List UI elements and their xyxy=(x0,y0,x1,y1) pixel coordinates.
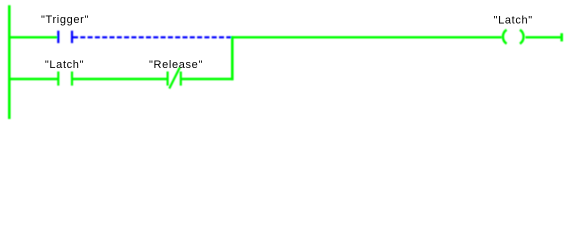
wire: dashed blue (no power flow) from Trigger to branch junction xyxy=(73,36,231,38)
contact "Release" (NC contact, green) xyxy=(168,68,181,89)
left power rail xyxy=(8,5,11,119)
contact "Latch" (NO contact, branch, green) xyxy=(58,72,72,86)
svg-text:"Trigger": "Trigger" xyxy=(41,14,89,26)
wire: junction to coil Latch xyxy=(231,36,502,38)
coil "Latch" (output, green) xyxy=(503,30,524,44)
svg-text:"Latch": "Latch" xyxy=(45,59,84,71)
contact Q "Trigger" (NO contact, state FALSE, blue) xyxy=(58,31,72,43)
wire: rail to branch contact Latch (rung 2 / parallel branch) xyxy=(8,78,58,80)
wire: rail to contact Trigger (rung 1) xyxy=(8,36,58,38)
svg-text:"Release": "Release" xyxy=(149,59,203,71)
junction: branch merge vertical wire xyxy=(231,36,234,80)
svg-text:"Latch": "Latch" xyxy=(494,14,533,26)
wire: Release to merge junction xyxy=(181,78,234,80)
rung end tick (right terminator) xyxy=(560,33,563,41)
wire: between contacts Latch and Release xyxy=(72,78,168,80)
wire: coil to rung end xyxy=(526,36,562,38)
